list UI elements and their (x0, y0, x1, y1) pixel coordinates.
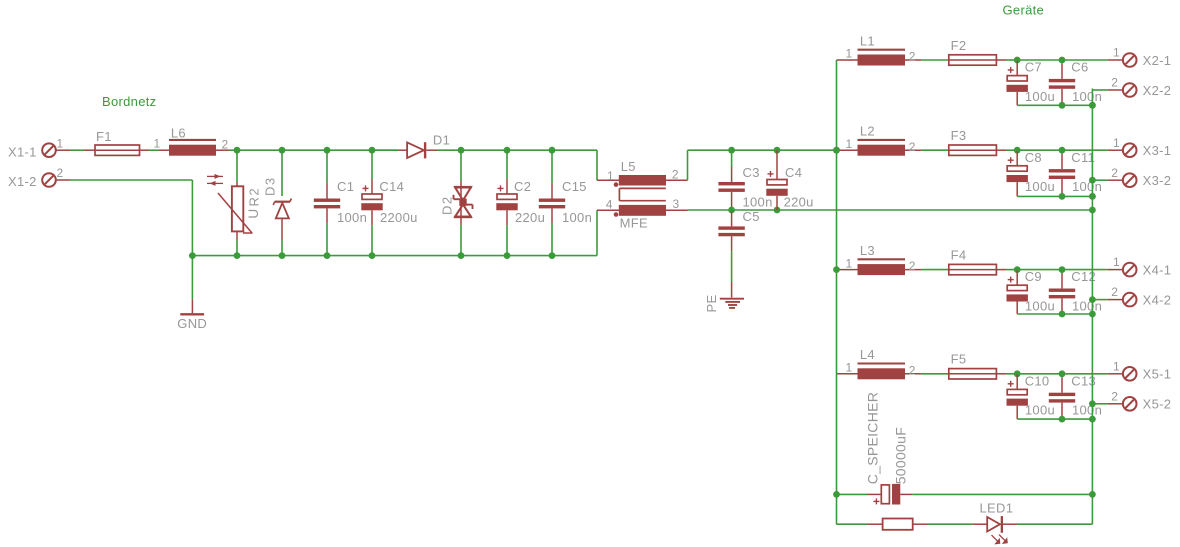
svg-text:C3: C3 (743, 165, 760, 180)
svg-text:2: 2 (909, 140, 916, 154)
svg-text:PE: PE (704, 295, 719, 313)
svg-text:X5-2: X5-2 (1143, 397, 1172, 412)
svg-text:2: 2 (909, 363, 916, 377)
svg-text:X4-2: X4-2 (1143, 292, 1172, 307)
svg-text:100n: 100n (743, 194, 773, 209)
svg-text:3: 3 (673, 197, 680, 211)
svg-text:F4: F4 (951, 247, 967, 262)
svg-text:220u: 220u (515, 210, 545, 225)
svg-text:1: 1 (607, 169, 614, 183)
svg-text:F3: F3 (951, 128, 967, 143)
svg-text:C15: C15 (562, 179, 587, 194)
svg-text:1: 1 (846, 256, 853, 270)
svg-text:L5: L5 (621, 159, 636, 174)
svg-text:100u: 100u (1025, 179, 1055, 194)
svg-text:50000uF: 50000uF (893, 427, 909, 484)
svg-text:100u: 100u (1025, 403, 1055, 418)
svg-text:100n: 100n (337, 210, 367, 225)
svg-text:D3: D3 (263, 176, 278, 196)
svg-text:100u: 100u (1025, 89, 1055, 104)
svg-text:4: 4 (606, 198, 613, 212)
svg-text:U: U (246, 209, 261, 219)
svg-text:D1: D1 (433, 133, 450, 148)
svg-text:1: 1 (1113, 136, 1120, 150)
svg-text:1: 1 (1113, 46, 1120, 60)
svg-text:C11: C11 (1071, 150, 1095, 165)
svg-text:LED1: LED1 (980, 500, 1014, 515)
svg-text:2: 2 (1111, 389, 1118, 403)
svg-text:C7: C7 (1025, 60, 1042, 75)
svg-text:1: 1 (154, 137, 161, 151)
svg-text:100u: 100u (1025, 299, 1055, 314)
svg-text:C1: C1 (337, 179, 354, 194)
svg-text:X2-2: X2-2 (1143, 83, 1172, 98)
svg-text:100n: 100n (1072, 179, 1102, 194)
svg-text:L4: L4 (860, 347, 875, 362)
svg-text:L6: L6 (171, 126, 186, 141)
svg-text:100n: 100n (1072, 299, 1102, 314)
svg-text:X5-1: X5-1 (1143, 367, 1172, 382)
svg-text:C_SPEICHER: C_SPEICHER (864, 392, 880, 484)
svg-text:100n: 100n (1072, 89, 1102, 104)
svg-text:2: 2 (909, 50, 916, 64)
svg-text:X1-1: X1-1 (8, 144, 37, 159)
svg-text:C5: C5 (743, 209, 760, 224)
svg-text:C8: C8 (1025, 150, 1042, 165)
svg-text:2: 2 (909, 259, 916, 273)
svg-text:1: 1 (57, 136, 64, 150)
svg-text:F1: F1 (96, 129, 112, 144)
svg-text:1: 1 (846, 361, 853, 375)
svg-text:X2-1: X2-1 (1143, 53, 1172, 68)
svg-text:C9: C9 (1025, 269, 1042, 284)
svg-text:F5: F5 (951, 352, 967, 367)
svg-text:2: 2 (1111, 285, 1118, 299)
svg-text:Bordnetz: Bordnetz (102, 94, 156, 109)
svg-text:X3-1: X3-1 (1143, 143, 1172, 158)
svg-text:1: 1 (846, 137, 853, 151)
svg-text:100n: 100n (1072, 403, 1102, 418)
svg-text:X1-2: X1-2 (8, 174, 37, 189)
svg-text:2: 2 (1111, 76, 1118, 90)
svg-text:GND: GND (177, 316, 207, 331)
svg-text:D2: D2 (440, 195, 455, 215)
svg-text:2: 2 (57, 166, 64, 180)
svg-text:C2: C2 (514, 179, 531, 194)
svg-text:L2: L2 (860, 124, 875, 139)
svg-text:F2: F2 (951, 38, 967, 53)
svg-text:2: 2 (1111, 166, 1118, 180)
svg-text:L3: L3 (860, 243, 875, 258)
svg-text:220u: 220u (784, 194, 814, 209)
svg-text:C4: C4 (785, 165, 802, 180)
svg-text:R2: R2 (247, 187, 262, 207)
svg-text:X3-2: X3-2 (1143, 173, 1172, 188)
svg-text:2: 2 (222, 137, 229, 151)
svg-text:2200u: 2200u (380, 210, 418, 225)
svg-text:1: 1 (1113, 359, 1120, 373)
svg-text:C10: C10 (1025, 373, 1050, 388)
svg-text:L1: L1 (860, 33, 875, 48)
svg-text:MFE: MFE (620, 215, 648, 230)
svg-text:X4-1: X4-1 (1143, 262, 1172, 277)
svg-text:1: 1 (846, 47, 853, 61)
svg-text:2: 2 (672, 167, 679, 181)
svg-text:C6: C6 (1071, 60, 1088, 75)
svg-text:C14: C14 (379, 179, 404, 194)
svg-text:100n: 100n (562, 210, 592, 225)
svg-text:Geräte: Geräte (1003, 2, 1045, 17)
svg-text:1: 1 (1113, 255, 1120, 269)
